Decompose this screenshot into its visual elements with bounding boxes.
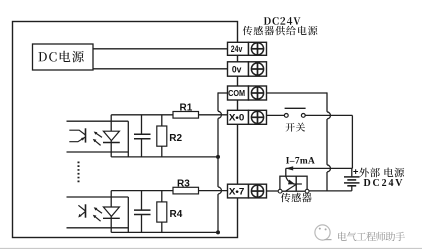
phototransistor ch1 bar bbox=[85, 128, 87, 142]
wire sensor collector lead bbox=[285, 168, 287, 176]
battery top lead bbox=[351, 168, 353, 177]
svg-text:R4: R4 bbox=[170, 209, 183, 220]
wire ch2 phototransistor emitter rail bbox=[67, 227, 129, 229]
wire COM internal vertical middle bbox=[217, 118, 219, 156]
label DC电源 bbox=[38, 52, 46, 61]
terminal 0v screw box bbox=[249, 62, 267, 76]
phototransistor ch2 collector bbox=[78, 205, 85, 211]
wire X0 to switch bbox=[267, 114, 285, 116]
terminal COM label box bbox=[228, 86, 249, 100]
wire ch1 feedback vertical bbox=[127, 121, 129, 157]
sensor collector arrow bbox=[286, 176, 291, 182]
wire ch1 phototransistor collector rail bbox=[67, 120, 129, 122]
svg-text:X•0: X•0 bbox=[229, 113, 245, 123]
capacitor ch1 top lead bbox=[141, 115, 143, 135]
wire ch2 bottom bus to COM line bbox=[111, 231, 218, 233]
resistor ch1 bottom lead bbox=[161, 146, 163, 157]
wire switch to battery branch bbox=[305, 114, 352, 116]
terminal COM screw head bbox=[251, 87, 263, 99]
resistor ch1 body bbox=[157, 126, 167, 146]
wire COM internal horizontal bbox=[218, 92, 228, 94]
svg-text:R2: R2 bbox=[169, 133, 182, 144]
resistor ch1 top lead bbox=[161, 115, 163, 126]
watermark text 电气工程师助手 bbox=[338, 232, 347, 241]
wire ch2 feedback vertical bbox=[127, 197, 129, 232]
wire ch2 input rail from resistor to LED anode bbox=[111, 190, 173, 192]
wire ch1 phototransistor emitter rail bbox=[67, 151, 129, 153]
wire X7 to sensor bbox=[267, 190, 279, 192]
sensor left terminal bbox=[278, 189, 282, 193]
DC power supply box DC电源 bbox=[33, 44, 94, 70]
battery plate long 1 bbox=[344, 176, 360, 178]
resistor R3 bbox=[173, 187, 199, 194]
capacitor ch2 bottom lead bbox=[141, 215, 143, 233]
wire hop over switch wire bbox=[327, 112, 330, 119]
resistor ch2 body bbox=[157, 202, 167, 222]
battery bottom lead bbox=[351, 186, 353, 191]
svg-text:+: + bbox=[353, 166, 359, 177]
wire R1 to X0 terminal bbox=[199, 114, 228, 116]
capacitor ch2 plates bbox=[134, 209, 151, 211]
PLC enclosure box bbox=[13, 22, 238, 238]
dotted separator line bbox=[78, 162, 80, 185]
resistor R1 bbox=[173, 112, 199, 119]
light arrow ch2 upper bbox=[95, 209, 102, 214]
light arrow ch1 upper bbox=[95, 133, 102, 138]
svg-text:24v: 24v bbox=[231, 44, 243, 54]
label DC24V sensor supply bbox=[264, 17, 271, 24]
wire sensor emitter to battery- bbox=[309, 190, 352, 192]
wire ch1 input rail from resistor to LED anode bbox=[111, 114, 173, 116]
sensor emitter line bbox=[286, 184, 297, 191]
terminal 24v label box bbox=[228, 42, 249, 55]
wire battery branch vertical bbox=[351, 115, 353, 168]
wire COM external vertical upper bbox=[326, 92, 328, 111]
wire DC+ to 24v terminal bbox=[93, 48, 228, 50]
LED ch2 cathode bar bbox=[103, 217, 120, 219]
light arrow ch2 lower bbox=[94, 216, 100, 221]
LED ch2 triangle bbox=[103, 207, 119, 216]
resistor ch2 top lead bbox=[161, 191, 163, 202]
terminal X*7 screw head bbox=[251, 185, 263, 197]
wire ch1 LED vertical lead bbox=[110, 115, 112, 157]
svg-text:DC24V: DC24V bbox=[364, 178, 404, 189]
terminal X*7 screw box bbox=[249, 184, 267, 198]
terminal 24v screw box bbox=[249, 42, 267, 55]
svg-text:X•7: X•7 bbox=[229, 186, 245, 196]
switch left contact bbox=[284, 114, 288, 118]
capacitor ch2 top lead bbox=[141, 191, 143, 211]
wire hop over sensor wire bbox=[327, 165, 330, 172]
sensor base tick bbox=[293, 183, 302, 185]
battery plate short 2 bbox=[347, 185, 356, 187]
wire COM internal vertical lower bbox=[217, 157, 219, 187]
wire COM external horizontal bbox=[267, 92, 328, 94]
wire hop over X7 wire bbox=[218, 187, 221, 194]
node junction ch1 bottom bbox=[216, 155, 220, 159]
capacitor ch1 plates bbox=[134, 133, 151, 135]
phototransistor ch1 collector bbox=[69, 130, 85, 135]
terminal 0v label box bbox=[228, 62, 249, 76]
wire ch2 LED vertical lead bbox=[110, 191, 112, 233]
sensor right terminal bbox=[305, 189, 309, 193]
phototransistor ch2 emitter bbox=[80, 212, 86, 217]
phototransistor ch2 bar bbox=[85, 204, 87, 217]
battery plate short 1 bbox=[347, 179, 356, 181]
svg-text:0v: 0v bbox=[232, 64, 242, 74]
wire sensor collector to battery+ bbox=[286, 167, 353, 169]
LED ch1 triangle bbox=[103, 131, 119, 140]
wire R3 to X7 terminal bbox=[199, 190, 228, 192]
wire COM internal vertical bottom bbox=[217, 194, 219, 232]
LED ch1 cathode bar bbox=[103, 142, 120, 144]
battery plate long 2 bbox=[344, 182, 360, 184]
capacitor ch1 bottom lead bbox=[141, 139, 143, 157]
wire COM external vertical lower bbox=[326, 172, 328, 191]
wire ch2 phototransistor collector rail bbox=[67, 196, 129, 198]
resistor ch2 bottom lead bbox=[161, 222, 163, 232]
watermark logo bbox=[315, 225, 330, 240]
label 外部电源 bbox=[359, 168, 369, 178]
terminal 0v screw head bbox=[251, 63, 263, 75]
current arrow on sensor wire bbox=[285, 166, 293, 170]
phototransistor ch1 emitter bbox=[69, 137, 85, 142]
svg-text:I‒7mA: I‒7mA bbox=[286, 157, 315, 167]
wire ch1 bottom bus to COM line bbox=[111, 156, 218, 158]
sensor internal divider bbox=[295, 176, 297, 191]
label 开关 bbox=[286, 123, 295, 132]
label 传感器供给电源 bbox=[243, 26, 253, 35]
wire DC- to 0v terminal bbox=[93, 68, 228, 70]
wire hop over X0 wire bbox=[218, 111, 221, 118]
bottom divider line bbox=[0, 247, 422, 249]
label 传感器 bbox=[281, 193, 291, 202]
wire COM external vertical middle bbox=[326, 119, 328, 165]
node junction ch2 bottom bbox=[216, 230, 220, 234]
terminal X*0 screw head bbox=[251, 111, 263, 123]
wire COM internal vertical upper bbox=[217, 92, 219, 111]
switch right contact bbox=[301, 114, 305, 118]
terminal 24v screw head bbox=[251, 43, 263, 55]
svg-text:COM: COM bbox=[228, 89, 245, 98]
terminal X*7 label box bbox=[228, 184, 249, 198]
sensor box U1 bbox=[280, 176, 307, 191]
switch blade bbox=[285, 107, 306, 109]
terminal X*0 screw box bbox=[249, 110, 267, 124]
light arrow ch1 lower bbox=[94, 140, 100, 145]
terminal COM screw box bbox=[249, 86, 267, 100]
terminal X*0 label box bbox=[228, 110, 249, 124]
